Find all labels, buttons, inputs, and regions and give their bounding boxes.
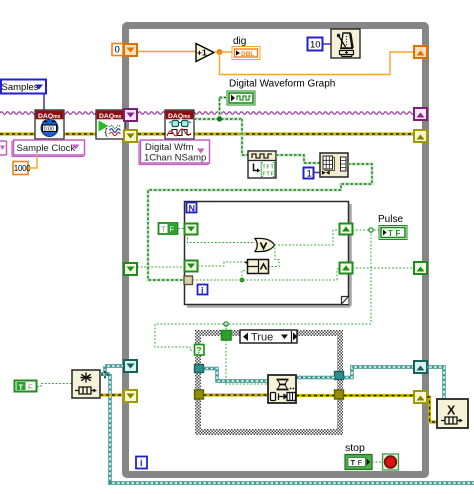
ring constant (cut off at left edge) xyxy=(0,141,7,155)
svg-text:True: True xyxy=(251,332,273,344)
wire: green from DWDT VI to Replace Array Subset xyxy=(276,155,320,163)
svg-text:F: F xyxy=(28,383,33,392)
numeric constant 1000 xyxy=(13,162,31,175)
boolean constant T (bottom left, true) xyxy=(15,381,37,392)
while loop border xyxy=(126,26,426,475)
shift register left teal (while loop) xyxy=(124,360,137,372)
shift register left orange (while loop) xyxy=(124,44,137,56)
shift register SR1 left (for loop, green, down arrow) xyxy=(185,224,198,235)
svg-text:F: F xyxy=(170,225,175,234)
for loop frame xyxy=(185,202,351,307)
wire: teal from while SR to clear VI xyxy=(427,367,444,399)
boolean constant F (top, feeds SR1) xyxy=(159,223,178,234)
shift register SR2 left (for loop, green, down arrow) xyxy=(185,261,198,272)
shift register SR2 right (for loop, green, up arrow) xyxy=(340,263,353,274)
wire: teal along the bottom xyxy=(108,481,474,484)
wire: error cluster wire (dark yellow with black dashes) upper xyxy=(0,132,414,135)
shift register left green (while loop) xyxy=(124,263,137,275)
shift register right orange (while loop) xyxy=(414,46,427,58)
wire: while green SR left to for SR2 xyxy=(137,266,184,268)
svg-text:i: i xyxy=(201,286,204,296)
wire: error case to while right SR xyxy=(344,394,415,397)
DAQmx Clear Task VI xyxy=(437,399,468,428)
wire: DAQmx task wire (purple) across top xyxy=(0,112,414,115)
shift register left olive lower (while loop) xyxy=(124,390,137,402)
wire: boolean TF to SR1 left xyxy=(178,228,184,230)
tunnel: error out of case (right border) xyxy=(335,390,344,399)
wire: green from Replace VI looping down-left to For loop tunnel xyxy=(148,164,372,280)
shift register right olive lower (while loop) xyxy=(414,391,427,403)
wire: orange shift reg to +1 xyxy=(137,51,196,53)
svg-text:10: 10 xyxy=(310,40,321,51)
svg-text:T: T xyxy=(19,383,24,392)
svg-text:DAQmx: DAQmx xyxy=(38,113,61,120)
wire: SR1 right to Pulse indicator and down xyxy=(353,228,380,324)
label Digital Waveform Graph xyxy=(229,79,335,90)
svg-text:Sample Clock: Sample Clock xyxy=(17,143,76,154)
svg-text:{: { xyxy=(105,127,108,137)
wire: teal from sub VI up to while teal SR and down to bottom xyxy=(100,366,124,483)
wire: teal inside case xyxy=(204,369,335,382)
case structure border (checkered) xyxy=(198,333,340,432)
wire: SR2 to And node xyxy=(198,262,248,266)
wire: error from while SR to clear VI xyxy=(427,397,437,422)
svg-text:dig: dig xyxy=(233,36,246,47)
svg-text:Digital Wfm: Digital Wfm xyxy=(145,142,194,153)
svg-text:T: T xyxy=(161,225,166,234)
svg-text:i: i xyxy=(140,458,143,468)
wire: teal case to while right SR xyxy=(344,367,415,378)
Or gate xyxy=(255,238,275,251)
ring constant Digital Wfm 1Chan NSamp xyxy=(139,140,210,165)
wire: indexing tunnel across for loop with junction xyxy=(193,269,341,282)
increment +1 node xyxy=(196,44,214,62)
shift register left purple (while loop) xyxy=(124,109,137,121)
wire: digital waveform green from Read VI xyxy=(194,98,248,156)
DAQmx Write VI xyxy=(268,375,297,403)
svg-text:F: F xyxy=(396,229,401,238)
indicator Pulse (boolean) xyxy=(379,226,407,240)
indicator dig (DBL) xyxy=(232,36,260,60)
shift register right teal (while loop) xyxy=(414,361,427,373)
task-control sub VI (asterisk) xyxy=(72,370,100,398)
control Samples (enum dropdown) xyxy=(1,80,46,94)
wire: blue 1 to Replace Array Subset xyxy=(314,172,321,174)
DAQmx Read VI xyxy=(165,110,194,139)
svg-text:Pulse: Pulse xyxy=(378,214,403,225)
shift register SR1 right (for loop, green, up arrow) xyxy=(340,224,353,235)
tunnel: teal task into case (left border) xyxy=(195,365,204,373)
tunnel: teal task out of case (right border) xyxy=(335,372,344,380)
i iteration terminal (for loop) xyxy=(198,285,208,296)
control stop (boolean TF) xyxy=(345,455,372,470)
numeric constant 0 xyxy=(112,44,123,56)
wire: orange from +1 to dig indicator and down-right xyxy=(214,49,414,75)
wire: blue I32 from Samples to Timing VI xyxy=(43,93,45,110)
wire: SR1 to Or gate xyxy=(188,234,256,243)
wire: boolean net to case selector xyxy=(155,322,371,350)
svg-text:F: F xyxy=(358,458,363,467)
shift register right green (while loop) xyxy=(414,262,427,274)
svg-text:T: T xyxy=(388,229,393,238)
case selector label True xyxy=(240,330,298,344)
N count terminal xyxy=(187,203,197,214)
wire: SR2 right to while green SR right xyxy=(353,267,415,269)
svg-text:Digital Waveform Graph: Digital Waveform Graph xyxy=(229,79,335,90)
DAQmx Timing VI xyxy=(35,110,64,139)
indicator Digital Waveform Graph terminal xyxy=(227,91,255,105)
compound arithmetic And node xyxy=(244,260,269,274)
wire: error from sub VI to while left SR xyxy=(100,393,124,396)
wire: blue 10 to metronome xyxy=(323,43,331,45)
svg-text:Samples: Samples xyxy=(2,82,39,93)
Digital Waveform to Boolean Array VI xyxy=(248,151,276,178)
svg-text:T: T xyxy=(351,458,356,467)
DAQmx Start Task VI xyxy=(96,110,125,139)
wire: error inside case xyxy=(204,393,335,397)
Replace Array Subset VI xyxy=(320,153,348,177)
i iteration terminal (while loop) xyxy=(136,457,147,469)
wire: boolean inside case down to DAQmx Write xyxy=(226,340,268,384)
ring constant Sample Clock xyxy=(12,140,85,157)
loop condition terminal (stop button) xyxy=(383,454,399,470)
shift register right purple (while loop) xyxy=(414,108,427,120)
tunnel: error into case (left border) xyxy=(195,390,204,399)
svg-text:+1: +1 xyxy=(197,48,207,58)
svg-text:N: N xyxy=(189,204,196,214)
wire: stop to loop condition xyxy=(372,461,382,463)
numeric constant 1 xyxy=(304,168,314,180)
svg-text:DAQmx: DAQmx xyxy=(168,113,191,120)
label Pulse xyxy=(378,214,403,225)
wire: Or output to SR1 right xyxy=(275,230,341,245)
svg-text:DBL: DBL xyxy=(241,51,254,58)
shift register right olive (while loop) xyxy=(414,130,427,142)
case selector terminal ? xyxy=(195,345,205,356)
svg-text:?: ? xyxy=(197,346,202,355)
svg-text:TFT: TFT xyxy=(263,165,275,171)
Wait Until Next ms Multiple (metronome) xyxy=(331,29,360,58)
wire: boolean to semaphore VI xyxy=(37,384,72,387)
tunnel (indexing, on for loop left border) xyxy=(184,276,193,285)
svg-text:DAQmx: DAQmx xyxy=(99,113,122,120)
shift register left olive (while loop) xyxy=(124,130,137,142)
tunnel: boolean into case (top border) xyxy=(222,331,232,341)
svg-text:stop: stop xyxy=(345,442,365,454)
svg-text:X: X xyxy=(447,404,456,418)
svg-text:1: 1 xyxy=(307,169,312,180)
svg-text:0: 0 xyxy=(115,45,120,56)
wire: orange from 1000 to Timing VI xyxy=(28,156,37,168)
svg-text:1Chan NSamp: 1Chan NSamp xyxy=(144,153,206,164)
wire: Or output branch down to And node xyxy=(269,248,279,267)
numeric constant 10 xyxy=(308,38,323,51)
label stop xyxy=(345,442,365,454)
svg-text:0:00: 0:00 xyxy=(44,126,54,132)
